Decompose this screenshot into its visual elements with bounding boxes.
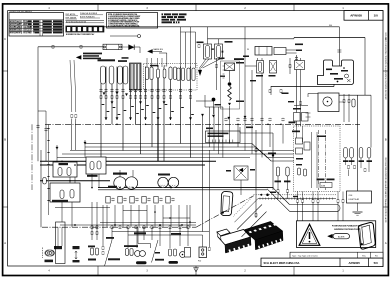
svg-text:MASSE N10: MASSE N10 xyxy=(154,48,164,51)
svg-text:SCH. ELECT. MD25 CHINA CSA: SCH. ELECT. MD25 CHINA CSA xyxy=(264,262,300,265)
svg-text:A: A xyxy=(4,241,6,245)
svg-text:C002 BATT +APC FUS: C002 BATT +APC FUS xyxy=(10,23,29,26)
svg-text:C015 PLUS AP CONTACT BAT.: C015 PLUS AP CONTACT BAT. xyxy=(10,31,36,34)
svg-text:F10: F10 xyxy=(198,261,201,263)
svg-text:AFW005: AFW005 xyxy=(348,261,360,265)
svg-text:C010 LIAISON DEMARREUR: C010 LIAISON DEMARREUR xyxy=(10,29,34,32)
svg-text:C001 BATTERIE +AVC: C001 BATTERIE +AVC xyxy=(10,20,29,23)
svg-text:C005 +APC S/CONTACT: C005 +APC S/CONTACT xyxy=(10,26,31,29)
svg-text:B: B xyxy=(385,138,387,142)
svg-text:ACIER: ACIER xyxy=(338,236,345,239)
svg-text:5/0: 5/0 xyxy=(374,261,378,265)
svg-text:A: A xyxy=(385,241,387,245)
svg-text:1/0: 1/0 xyxy=(374,14,379,18)
svg-text:X-MB: X-MB xyxy=(321,186,325,188)
svg-text:JUMPERS POSITIONS P.18/B1: JUMPERS POSITIONS P.18/B1 xyxy=(334,229,361,231)
svg-text:LUNETTE AR: LUNETTE AR xyxy=(349,198,360,201)
svg-text:B1 B2 B3 B4 B5 B6 B7 B8: B1 B2 B3 B4 B5 B6 B7 B8 xyxy=(66,21,86,23)
svg-text:AFW005: AFW005 xyxy=(350,14,362,18)
svg-text:BORNIER DE RACCORDEMENT AV: BORNIER DE RACCORDEMENT AV xyxy=(66,33,95,36)
svg-text:Type : Tag Type and remarks: Type : Tag Type and remarks xyxy=(292,255,318,257)
svg-text:F04: F04 xyxy=(329,25,332,27)
svg-text:W: W xyxy=(247,49,249,51)
svg-text:B: B xyxy=(4,138,6,142)
svg-text:C: C xyxy=(4,37,6,41)
